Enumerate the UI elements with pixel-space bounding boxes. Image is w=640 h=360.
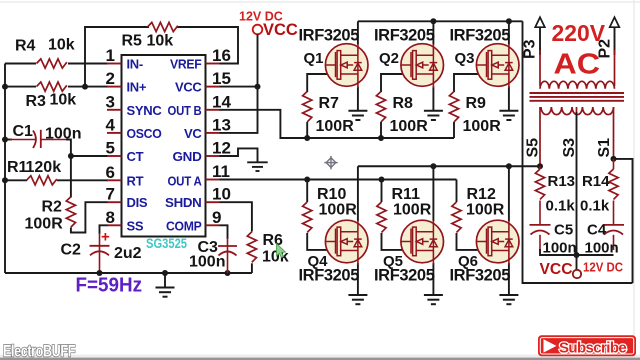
- svg-text:100R: 100R: [25, 216, 64, 233]
- svg-text:R3: R3: [26, 93, 47, 110]
- ground Q3: [499, 111, 518, 120]
- ground pin12: [247, 162, 268, 171]
- junction Q3 drain-bus: [506, 18, 512, 24]
- svg-text:R5: R5: [122, 33, 143, 50]
- junction rail-R3: [2, 84, 8, 90]
- wire Q1-3 drains to S1 route: [523, 21, 633, 283]
- svg-text:16: 16: [212, 46, 231, 65]
- svg-text:OSCO: OSCO: [127, 126, 162, 141]
- capacitor C2: [90, 233, 110, 273]
- svg-text:IRF3205: IRF3205: [450, 26, 511, 44]
- svg-text:VCC: VCC: [263, 21, 298, 39]
- svg-text:SYNC: SYNC: [127, 103, 163, 118]
- junction dot S3: [574, 252, 580, 258]
- svg-text:10k: 10k: [147, 33, 174, 50]
- svg-text:VREF: VREF: [170, 57, 202, 72]
- wire pin9 to C3: [220, 225, 228, 239]
- svg-text:IRF3205: IRF3205: [299, 266, 360, 284]
- capacitor C3: [218, 238, 237, 273]
- svg-text:100R: 100R: [463, 118, 502, 135]
- svg-text:14: 14: [212, 92, 231, 111]
- svg-text:3: 3: [106, 92, 115, 111]
- capacitor C1: [10, 130, 41, 148]
- svg-text:R4: R4: [15, 38, 36, 55]
- svg-text:AC: AC: [554, 49, 601, 81]
- svg-text:R7: R7: [319, 95, 340, 112]
- svg-text:SS: SS: [127, 218, 144, 233]
- resistor R7 + gate wire Q1: [307, 74, 328, 138]
- ground Q5: [424, 295, 443, 304]
- svg-text:IRF3205: IRF3205: [374, 266, 435, 284]
- junction C3-rail: [225, 270, 231, 276]
- svg-text:220V: 220V: [552, 20, 606, 46]
- svg-text:R10: R10: [317, 186, 346, 203]
- pin stubs left: [107, 64, 220, 226]
- svg-text:12: 12: [212, 139, 231, 158]
- resistor R6: [247, 232, 256, 262]
- svg-text:100n: 100n: [45, 126, 81, 143]
- arrow P2: [610, 17, 620, 27]
- svg-text:S5: S5: [525, 138, 542, 158]
- svg-text:DIS: DIS: [127, 195, 148, 210]
- svg-text:0.1k: 0.1k: [546, 198, 576, 215]
- svg-text:OUT A: OUT A: [168, 173, 203, 188]
- resistor R14: [613, 159, 615, 169]
- pin numbers right: [212, 46, 231, 227]
- svg-text:100R: 100R: [316, 118, 355, 135]
- wire VCC to pin15/pin13: [220, 34, 258, 133]
- wire pin12 to ground: [220, 148, 258, 161]
- junction R8-outB: [378, 135, 384, 141]
- svg-text:VCC: VCC: [175, 80, 202, 95]
- svg-text:120k: 120k: [26, 159, 62, 176]
- ground Q4: [348, 295, 367, 304]
- svg-text:10k: 10k: [48, 37, 75, 54]
- junction Q6 drain-bus: [506, 163, 512, 169]
- power VCC terminal: [253, 25, 263, 35]
- svg-text:11: 11: [212, 162, 230, 181]
- resistor R2: [66, 197, 75, 228]
- svg-text:1: 1: [106, 46, 115, 65]
- svg-text:6: 6: [106, 163, 115, 182]
- svg-text:Q1: Q1: [304, 50, 324, 67]
- ground Q6: [499, 295, 518, 304]
- transistor Q1: [357, 87, 359, 111]
- svg-text:10: 10: [212, 185, 231, 204]
- svg-text:ElectroBUFF: ElectroBUFF: [3, 342, 75, 360]
- svg-text:IN-: IN-: [127, 57, 143, 72]
- subscribe button: [539, 336, 636, 357]
- svg-text:+: +: [101, 229, 110, 246]
- svg-text:0.1k: 0.1k: [580, 198, 610, 215]
- capacitor C5: [530, 225, 551, 250]
- svg-text:5: 5: [106, 139, 115, 158]
- transformer T1 primary winding: [540, 81, 614, 88]
- resistor R5: [148, 22, 179, 31]
- wire left rail: [4, 64, 6, 274]
- resistor R13: [539, 166, 541, 169]
- wire OUT B bus pin14: [220, 110, 455, 138]
- wire R5 top loop: [85, 27, 149, 87]
- pin names: [127, 57, 163, 234]
- svg-text:R9: R9: [466, 95, 487, 112]
- svg-text:VCC: VCC: [540, 261, 573, 278]
- wire pin5 CT: [71, 155, 108, 157]
- transformer secondary winding: [541, 107, 614, 115]
- svg-text:SG3525: SG3525: [146, 236, 187, 251]
- junction S5-R13: [537, 163, 543, 169]
- svg-text:2u2: 2u2: [114, 245, 142, 262]
- junction R11-outA: [379, 177, 385, 183]
- wire OUT A bus pin11: [220, 179, 457, 181]
- svg-text:100n: 100n: [189, 254, 225, 271]
- svg-text:C2: C2: [61, 242, 82, 259]
- junction R5-pin2: [82, 84, 88, 90]
- svg-text:R2: R2: [42, 199, 63, 216]
- wire top drain bus: [358, 20, 523, 22]
- transistor Q3: [508, 87, 510, 111]
- wire pin8 to C2: [100, 225, 109, 234]
- svg-text:C5: C5: [554, 222, 573, 239]
- svg-text:Q3: Q3: [455, 50, 475, 67]
- svg-text:SHDN: SHDN: [165, 195, 202, 210]
- ground Q1: [348, 111, 367, 120]
- junction gnd-rail: [162, 270, 168, 276]
- capacitor C4: [603, 225, 624, 250]
- svg-text:IN+: IN+: [127, 80, 147, 95]
- svg-text:8: 8: [106, 208, 115, 227]
- svg-text:15: 15: [212, 69, 231, 88]
- power VCC bottom terminal: [573, 270, 581, 278]
- wire R1 to pin6: [5, 179, 27, 181]
- svg-text:10k: 10k: [50, 92, 77, 109]
- junction VCC-pin15: [255, 84, 261, 90]
- svg-text:13: 13: [212, 115, 231, 134]
- svg-text:100R: 100R: [466, 202, 505, 219]
- junction Q5 drain-bus: [430, 163, 436, 169]
- wire R2 bottom to pin7: [71, 202, 108, 232]
- svg-text:12V DC: 12V DC: [583, 260, 623, 274]
- junction rail-C1: [2, 137, 8, 143]
- svg-text:COMP: COMP: [166, 218, 202, 233]
- svg-text:VC: VC: [184, 126, 202, 141]
- svg-text:100R: 100R: [319, 202, 358, 219]
- junction Q2 drain-bus: [430, 18, 436, 24]
- svg-text:R11: R11: [392, 186, 421, 203]
- wire C1 left stem: [5, 139, 12, 141]
- resistor R3: [37, 82, 68, 91]
- resistor R1: [27, 176, 58, 185]
- transformer primary leads P3 P2: [540, 28, 615, 56]
- svg-text:R8: R8: [393, 95, 414, 112]
- svg-text:IRF3205: IRF3205: [450, 266, 511, 284]
- resistor R10 + gate wire Q4: [307, 180, 328, 250]
- svg-text:7: 7: [106, 185, 115, 204]
- svg-text:P3: P3: [522, 39, 539, 59]
- svg-text:R14: R14: [582, 173, 610, 190]
- svg-text:Subscribe: Subscribe: [559, 340, 626, 357]
- junction C1-CT: [68, 153, 74, 159]
- wire lower drain bus: [358, 165, 540, 167]
- resistor R12 + gate wire Q6: [457, 180, 480, 250]
- svg-text:IRF3205: IRF3205: [299, 26, 360, 44]
- svg-text:2: 2: [106, 69, 115, 88]
- junction rail-R1: [2, 177, 8, 183]
- svg-text:100R: 100R: [393, 202, 432, 219]
- resistor R9 + gate wire Q3: [454, 74, 479, 138]
- wire C1 right to CT node: [66, 140, 71, 198]
- transistor Q5: [432, 263, 434, 295]
- wire R3 to pin2: [5, 86, 36, 88]
- svg-text:R13: R13: [548, 173, 576, 190]
- op-amp U1 SG3525 box: [122, 55, 206, 237]
- svg-text:9: 9: [212, 208, 221, 227]
- junction S1-R14: [611, 156, 617, 162]
- frame: [0, 1, 640, 3]
- svg-text:R1: R1: [7, 159, 28, 176]
- junction R7-outB: [304, 135, 310, 141]
- ground on bottom rail: [164, 273, 166, 287]
- svg-text:100R: 100R: [390, 118, 429, 135]
- arrow P3: [535, 17, 545, 27]
- svg-text:S3: S3: [561, 138, 578, 158]
- resistor R11 + gate wire Q5: [382, 180, 404, 250]
- transformer core: [530, 93, 625, 101]
- svg-text:CT: CT: [127, 149, 144, 164]
- transistor Q2: [432, 87, 434, 111]
- ground Q2: [424, 111, 443, 120]
- svg-text:OUT B: OUT B: [168, 103, 202, 118]
- svg-text:GND: GND: [173, 149, 202, 164]
- svg-text:Q2: Q2: [379, 50, 399, 67]
- svg-text:S1: S1: [596, 138, 613, 158]
- svg-text:RT: RT: [127, 173, 144, 188]
- taps S5 S3 S1: [540, 107, 614, 166]
- resistor R4: [37, 59, 68, 68]
- svg-text:100n: 100n: [585, 240, 619, 257]
- transistor Q4: [357, 263, 359, 295]
- junction C2-rail: [97, 270, 103, 276]
- mouse cursor: [277, 244, 286, 258]
- origin marker: [324, 156, 337, 169]
- svg-text:F=59Hz: F=59Hz: [76, 275, 143, 297]
- svg-text:R12: R12: [467, 186, 496, 203]
- svg-text:C1: C1: [13, 123, 34, 140]
- wire bottom rail: [5, 272, 252, 274]
- svg-text:100n: 100n: [543, 240, 577, 257]
- svg-text:4: 4: [106, 115, 116, 134]
- svg-text:C4: C4: [587, 222, 607, 239]
- wire drain stubs upper: [358, 21, 509, 44]
- wire R4 to pin1: [5, 63, 36, 65]
- junction R10-outA: [304, 177, 310, 183]
- svg-text:IRF3205: IRF3205: [374, 26, 435, 44]
- resistor R8 + gate wire Q2: [381, 74, 404, 138]
- transistor Q6: [508, 263, 510, 295]
- pin numbers left: [106, 46, 116, 227]
- wire pin10 to R6: [220, 202, 252, 231]
